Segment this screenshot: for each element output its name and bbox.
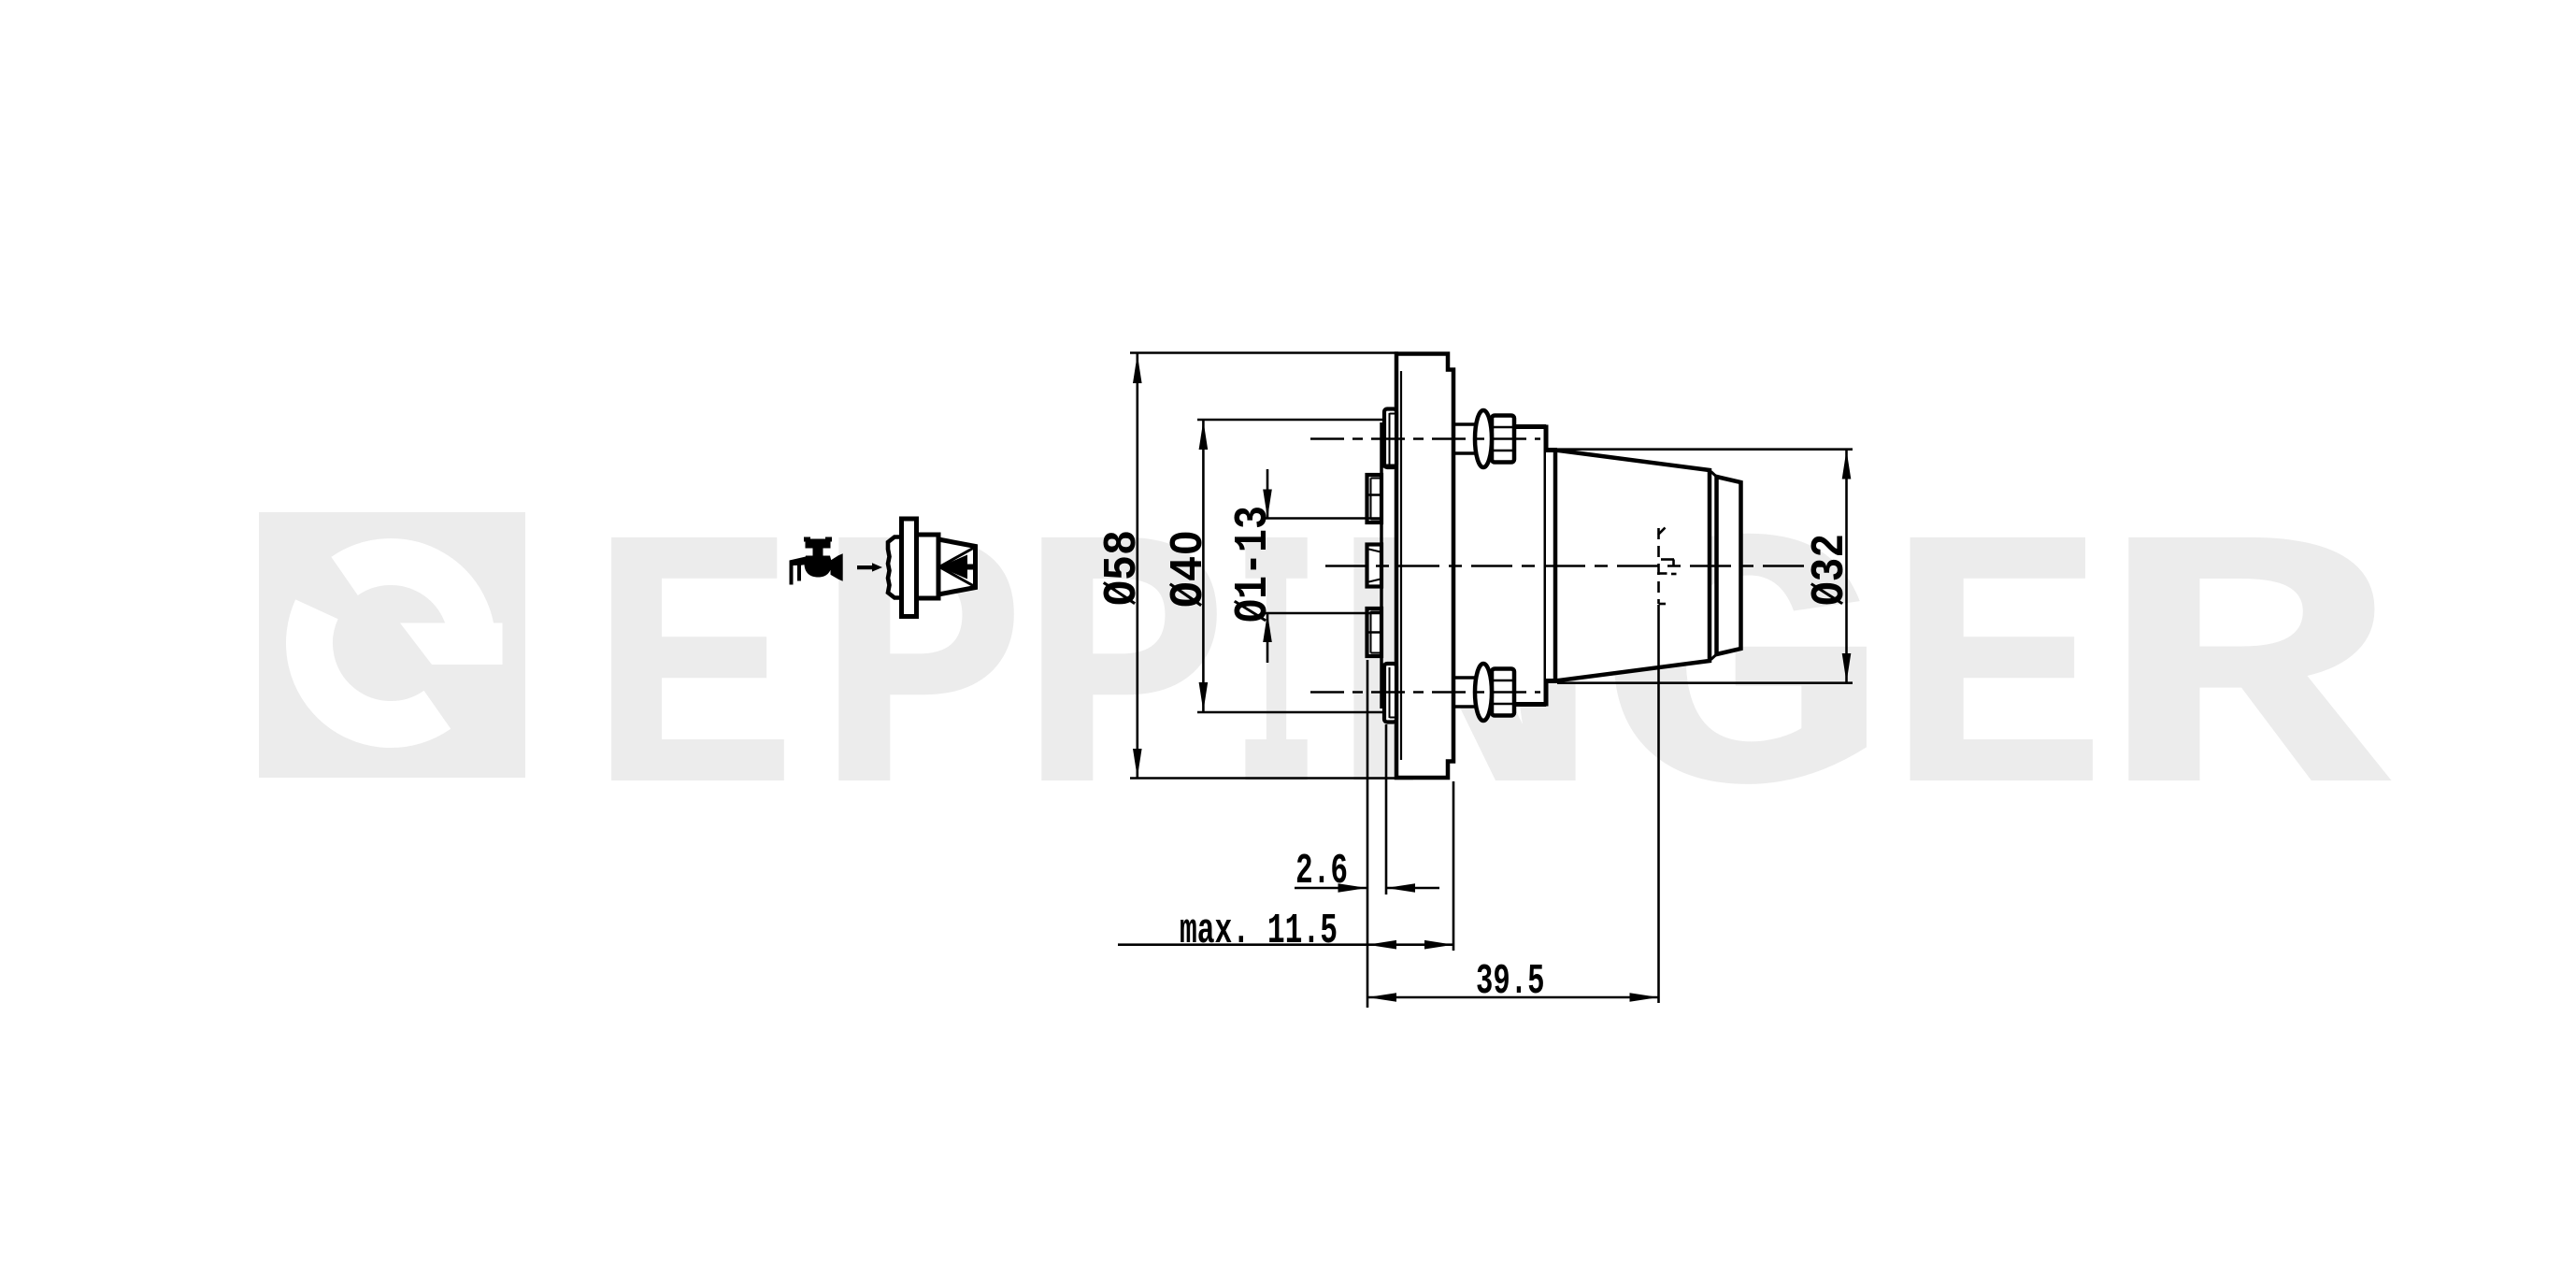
svg-text:Ø32: Ø32 [1804, 534, 1857, 606]
bottom stud centerline [1310, 691, 1540, 694]
svg-text:R: R [2096, 473, 2397, 892]
jaw C inner slant top [1369, 550, 1381, 552]
top stud shaft [1454, 424, 1483, 453]
ext line Ø13 top [1264, 517, 1381, 520]
mounting flange plate [1396, 354, 1453, 779]
bottom stud spherical washer [1475, 664, 1492, 721]
jaw B (upper) [1367, 475, 1382, 522]
ext line flange face (vertical) [1453, 781, 1455, 951]
svg-text:E: E [1885, 473, 2108, 892]
ext line screw axis (vertical) [1657, 605, 1660, 1003]
ext line jaw tip (vertical) [1367, 660, 1369, 1008]
watermark: logo e-ring top arc [345, 562, 472, 651]
dimension Ø32 [1845, 450, 1848, 683]
hidden screw jog lower [1657, 572, 1667, 575]
svg-text:2.6: 2.6 [1295, 848, 1348, 895]
ext line Ø40 bottom [1197, 711, 1383, 714]
body right face [1544, 425, 1549, 707]
svg-text:max. 11.5: max. 11.5 [1180, 908, 1338, 955]
back plate disc edge [1380, 422, 1383, 708]
svg-text:Ø58: Ø58 [1096, 530, 1150, 606]
hidden screw dash lower [1671, 573, 1677, 576]
hidden screw jog h [1661, 558, 1674, 561]
dimension 39.5 [1367, 996, 1659, 999]
icon: chuck pictogram rear body [888, 537, 902, 598]
jaw C inner slant bottom [1369, 580, 1381, 582]
top stud spherical washer [1475, 410, 1492, 467]
svg-text:Ø1-13: Ø1-13 [1227, 506, 1281, 623]
dimension 2.6 [1295, 887, 1367, 890]
ext line flange bottom (Ø58) [1130, 777, 1398, 780]
main centerline [1325, 565, 1823, 567]
top stud centerline [1310, 437, 1540, 440]
hidden clamp screw axis (dashed) [1657, 528, 1660, 604]
bottom lug inner v [1389, 667, 1391, 718]
hidden screw tick bottom [1659, 603, 1667, 606]
chuck body cylinder [1453, 427, 1546, 705]
watermark: logo e-ring bottom arc [309, 609, 437, 724]
icon: chuck pictogram body [917, 535, 939, 598]
flange rim inner edge [1400, 371, 1402, 760]
svg-text:E: E [588, 473, 798, 892]
jaw C (middle) [1367, 545, 1382, 587]
jaw D (lower) [1367, 608, 1382, 656]
body top edge [1514, 424, 1547, 429]
svg-text:39.5: 39.5 [1476, 958, 1545, 1006]
top lug inner v [1389, 413, 1391, 465]
jaw D mid line [1369, 631, 1382, 634]
clamping cone [1555, 451, 1710, 681]
bottom lug [1384, 664, 1396, 723]
svg-text:Ø40: Ø40 [1163, 530, 1216, 608]
dimension max. 11.5 [1118, 943, 1453, 946]
bottom lug inner h [1390, 717, 1397, 719]
hidden screw tick top [1658, 528, 1666, 536]
ext line Ø40 top [1197, 419, 1383, 422]
cone-nose joint bottom [1711, 654, 1717, 660]
ext line Ø32 top [1557, 448, 1853, 451]
bottom lug step [1381, 664, 1396, 667]
nose cap [1717, 477, 1741, 654]
dimension Ø58 [1137, 354, 1139, 779]
cone step collar [1546, 451, 1556, 681]
step ledge top [1546, 448, 1557, 452]
icon: chuck pictogram cone mouth [938, 539, 976, 594]
ext line Ø32 bottom [1557, 681, 1853, 684]
step ledge bottom [1546, 679, 1557, 683]
top lug inner h [1390, 413, 1397, 415]
icon: chuck pictogram insert arrow [939, 555, 975, 580]
bottom stud nut [1492, 669, 1514, 716]
icon: coolant tap symbol [790, 537, 843, 585]
icon: chuck pictogram flange plate [902, 519, 917, 617]
body bottom edge [1514, 702, 1547, 707]
ext line flange top (Ø58) [1130, 351, 1398, 354]
icon: coolant flow arrow [857, 563, 882, 571]
watermark: logo e crossbar [400, 623, 503, 665]
jaw B mid line [1369, 494, 1382, 496]
dimension Ø1-13 [1267, 469, 1269, 519]
cone-nose joint top [1711, 472, 1717, 478]
hidden screw jog v [1672, 560, 1675, 567]
watermark: EPPINGER logo square [259, 512, 525, 778]
bottom stud shaft [1454, 678, 1483, 707]
dimension Ø40 [1202, 420, 1205, 712]
top lug step [1381, 465, 1396, 468]
top stud nut [1492, 416, 1514, 463]
top lug [1384, 409, 1396, 468]
ext line disc face (vertical) [1385, 724, 1388, 894]
ext line Ø13 bottom [1264, 612, 1381, 615]
